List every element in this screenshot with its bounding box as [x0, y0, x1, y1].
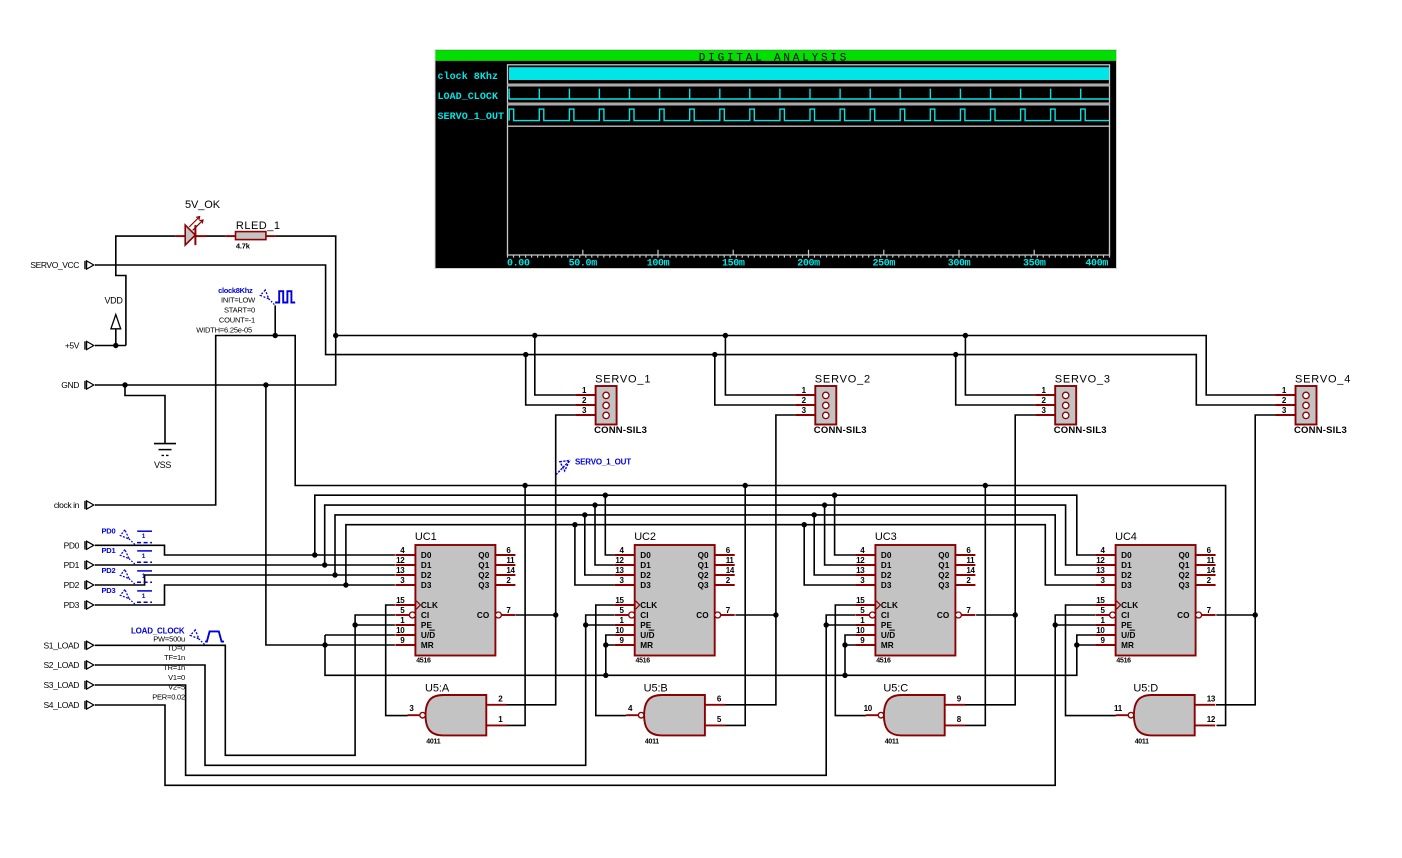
terminal S1_LOAD — [44, 640, 96, 650]
svg-text:TR=1n: TR=1n — [163, 663, 185, 672]
svg-text:PD0: PD0 — [64, 540, 80, 550]
svg-text:Q0: Q0 — [478, 551, 489, 560]
svg-text:4011: 4011 — [645, 739, 659, 746]
svg-text:CONN-SIL3: CONN-SIL3 — [1054, 425, 1107, 436]
junction: PD0 bus to UC2 D0 — [603, 493, 608, 498]
wire: PD0 net — [95, 545, 395, 555]
svg-text:4011: 4011 — [426, 739, 440, 746]
connector SERVO_1 CONN-SIL3 — [576, 373, 652, 436]
svg-text:D2: D2 — [881, 571, 892, 580]
svg-text:10: 10 — [1096, 626, 1105, 635]
svg-text:WIDTH=6.25e-05: WIDTH=6.25e-05 — [196, 325, 252, 334]
counter UC1 4516 — [395, 531, 515, 664]
nand gate U5:A 4011 — [408, 683, 507, 746]
wire: SERVO_4 pin3 / CO / U5:D in — [1216, 415, 1276, 705]
svg-text:13: 13 — [615, 566, 624, 575]
junction: GND vertical branch — [263, 382, 268, 387]
svg-text:V2=5: V2=5 — [168, 683, 185, 692]
svg-text:PE: PE — [1121, 621, 1133, 630]
junction: PD2 bus to UC3 D2 — [812, 512, 817, 517]
svg-text:D0: D0 — [881, 551, 892, 560]
svg-text:S3_LOAD: S3_LOAD — [44, 680, 80, 690]
wire: S3_LOAD net — [95, 615, 855, 775]
svg-text:14: 14 — [726, 566, 735, 575]
svg-text:clock in: clock in — [54, 500, 80, 510]
svg-text:150m: 150m — [722, 258, 745, 269]
junction: GND MR/UD UC2 — [603, 642, 608, 647]
svg-text:10: 10 — [864, 704, 873, 713]
terminal clock in — [54, 500, 96, 510]
svg-text:U/D: U/D — [421, 631, 435, 640]
svg-text:PE: PE — [640, 621, 652, 630]
svg-text:11: 11 — [726, 556, 735, 565]
junction: clock bus to U5:A — [522, 483, 527, 488]
svg-text:12: 12 — [856, 556, 865, 565]
svg-text:D3: D3 — [421, 581, 432, 590]
terminal PD0 — [64, 540, 96, 550]
switch PD0 — [102, 527, 153, 546]
svg-text:SERVO_1_OUT: SERVO_1_OUT — [575, 458, 631, 467]
svg-text:UC2: UC2 — [634, 531, 656, 543]
svg-text:4.7k: 4.7k — [236, 241, 251, 250]
LED 5V_OK — [175, 199, 221, 245]
svg-text:INIT=LOW: INIT=LOW — [221, 296, 256, 305]
svg-text:14: 14 — [1207, 566, 1216, 575]
svg-text:CLK: CLK — [640, 601, 657, 610]
svg-text:LOAD_CLOCK: LOAD_CLOCK — [438, 92, 499, 103]
svg-text:4516: 4516 — [636, 657, 651, 664]
svg-text:300m: 300m — [948, 258, 971, 269]
svg-text:CONN-SIL3: CONN-SIL3 — [594, 425, 647, 436]
junction: VCC bus to SERVO_3 pin2 — [953, 352, 958, 357]
svg-text:Q1: Q1 — [478, 561, 489, 570]
svg-text:0.00: 0.00 — [507, 258, 530, 269]
VSS ground symbol — [154, 444, 176, 470]
svg-text:13: 13 — [1207, 695, 1216, 704]
svg-text:SERVO_1: SERVO_1 — [595, 373, 651, 385]
junction: S1 net CI/PE UC1 — [352, 622, 357, 627]
counter UC2 4516 — [615, 531, 735, 664]
svg-text:13: 13 — [396, 566, 405, 575]
junction: S2 net CI/PE UC2 — [583, 622, 588, 627]
svg-text:CI: CI — [640, 611, 648, 620]
svg-text:12: 12 — [1207, 715, 1216, 724]
junction: UC2 CO / SERVO_2 net — [773, 612, 778, 617]
svg-text:GND: GND — [61, 380, 79, 390]
svg-text:CLK: CLK — [1121, 601, 1138, 610]
svg-text:RLED_1: RLED_1 — [236, 220, 281, 232]
junction: GND bottom bus UC2 tap — [603, 673, 608, 678]
svg-text:PD3: PD3 — [102, 586, 116, 595]
svg-text:D1: D1 — [881, 561, 892, 570]
svg-text:MR: MR — [881, 641, 894, 650]
junction: PD1 bus to UC3 D1 — [822, 502, 827, 507]
junction: GND bus to SERVO_1 pin1 — [532, 333, 537, 338]
wire: SERVO_1 pin3 / CO / U5:A in — [507, 415, 576, 705]
svg-text:CI: CI — [881, 611, 889, 620]
svg-text:1: 1 — [142, 573, 146, 580]
svg-text:D0: D0 — [640, 551, 651, 560]
svg-text:MR: MR — [1121, 641, 1134, 650]
svg-text:4516: 4516 — [1116, 657, 1131, 664]
svg-text:350m: 350m — [1023, 258, 1046, 269]
svg-text:S2_LOAD: S2_LOAD — [44, 660, 80, 670]
svg-text:15: 15 — [856, 596, 865, 605]
svg-text:UC3: UC3 — [875, 531, 897, 543]
junction: UC3 CO / SERVO_3 net — [1013, 612, 1018, 617]
terminal S2_LOAD — [44, 660, 96, 670]
svg-text:Q1: Q1 — [1178, 561, 1189, 570]
wire: UC3 CLK / U5:C out — [835, 605, 866, 716]
svg-text:clock 8Khz: clock 8Khz — [438, 71, 499, 83]
svg-text:PD0: PD0 — [102, 527, 116, 536]
svg-text:D0: D0 — [1121, 551, 1132, 560]
junction: PD1 at UC1 D1 — [322, 562, 327, 567]
svg-text:10: 10 — [615, 626, 624, 635]
svg-text:D1: D1 — [640, 561, 651, 570]
wire: S4_LOAD net — [95, 615, 1095, 785]
switch PD2 — [102, 566, 153, 585]
junction: PD0 bus to UC3 D0 — [832, 493, 837, 498]
svg-text:U/D: U/D — [640, 631, 654, 640]
terminal SERVO_VCC — [30, 260, 95, 270]
wire: PD3 net — [95, 585, 395, 605]
svg-text:D3: D3 — [881, 581, 892, 590]
junction: GND bus to SERVO_2 pin1 — [723, 333, 728, 338]
svg-text:CI: CI — [1121, 611, 1129, 620]
wire: SERVO_VCC net — [95, 265, 1276, 405]
svg-text:11: 11 — [1114, 704, 1123, 713]
junction: GND / VSS branch — [122, 382, 127, 387]
wire: GND to MR bus — [266, 385, 395, 645]
SERVO_1_OUT trace — [509, 109, 1109, 121]
junction: VCC bus to SERVO_1 pin2 — [523, 352, 528, 357]
svg-text:PE: PE — [421, 621, 433, 630]
generator clock8Khz — [196, 286, 295, 335]
svg-text:PER=0.02: PER=0.02 — [152, 693, 185, 702]
svg-text:D0: D0 — [421, 551, 432, 560]
svg-text:13: 13 — [1096, 566, 1105, 575]
wire: PD2 net — [95, 575, 395, 585]
resistor RLED_1 4.7k — [225, 220, 280, 250]
svg-text:SERVO_1_OUT: SERVO_1_OUT — [438, 112, 505, 123]
svg-text:PD1: PD1 — [64, 560, 80, 570]
svg-text:CI: CI — [421, 611, 429, 620]
svg-text:S4_LOAD: S4_LOAD — [44, 700, 80, 710]
svg-text:Q0: Q0 — [1178, 551, 1189, 560]
probe SERVO_1_OUT — [556, 458, 631, 475]
svg-text:PD3: PD3 — [64, 600, 80, 610]
junction: PD2 bus to UC2 D2 — [582, 512, 587, 517]
connector SERVO_3 CONN-SIL3 — [1035, 373, 1111, 436]
svg-text:4011: 4011 — [885, 739, 899, 746]
terminal PD2 — [64, 580, 96, 590]
junction: S4 net CI/PE UC4 — [1053, 622, 1058, 627]
svg-text:CONN-SIL3: CONN-SIL3 — [814, 425, 867, 436]
svg-text:DIGITAL ANALYSIS: DIGITAL ANALYSIS — [699, 52, 849, 64]
svg-text:D3: D3 — [1121, 581, 1132, 590]
svg-text:CO: CO — [696, 611, 709, 620]
svg-text:U5:C: U5:C — [883, 683, 908, 695]
switch PD3 — [102, 586, 153, 605]
junction: GND bottom bus UC3 tap — [842, 673, 847, 678]
junction: clock bus to U5:C — [983, 483, 988, 488]
terminal +5V — [65, 341, 96, 351]
terminal GND — [61, 380, 95, 390]
wire: clock net — [95, 336, 1226, 726]
svg-text:4011: 4011 — [1135, 739, 1149, 746]
wire: UC4 CLK / U5:D out — [1066, 605, 1116, 716]
svg-text:Q2: Q2 — [478, 571, 489, 580]
svg-text:4516: 4516 — [876, 657, 891, 664]
svg-text:50.0m: 50.0m — [569, 258, 598, 269]
svg-text:PD2: PD2 — [64, 580, 80, 590]
svg-text:10: 10 — [856, 626, 865, 635]
junction: GND MR/UD UC4 — [1074, 642, 1079, 647]
svg-text:U/D: U/D — [881, 631, 895, 640]
junction: GND bus / RLED_1 — [333, 333, 338, 338]
wire: UC1 CLK / U5:A out — [386, 605, 408, 716]
svg-text:MR: MR — [640, 641, 653, 650]
svg-text:TD=0: TD=0 — [167, 643, 185, 652]
digital analysis panel — [435, 50, 1117, 270]
svg-text:PE: PE — [881, 621, 893, 630]
svg-text:Q2: Q2 — [938, 571, 949, 580]
svg-text:PD1: PD1 — [102, 546, 116, 555]
svg-text:VSS: VSS — [154, 460, 171, 470]
junction: PD2 at UC1 D2 — [332, 572, 337, 577]
svg-text:V1=0: V1=0 — [168, 673, 185, 682]
generator LOAD_CLOCK — [131, 626, 224, 701]
svg-text:CO: CO — [937, 611, 950, 620]
junction: UC4 CO / SERVO_4 net — [1253, 612, 1258, 617]
wire: GND net top bus — [95, 336, 1276, 396]
svg-text:D2: D2 — [1121, 571, 1132, 580]
svg-text:Q3: Q3 — [478, 581, 489, 590]
svg-text:clock8Khz: clock8Khz — [218, 286, 253, 295]
svg-text:D1: D1 — [421, 561, 432, 570]
svg-text:U5:A: U5:A — [425, 683, 450, 695]
svg-text:UC1: UC1 — [415, 531, 437, 543]
wire: SERVO_3 pin3 / CO / U5:C in — [965, 415, 1035, 705]
svg-text:Q3: Q3 — [938, 581, 949, 590]
svg-text:5V_OK: 5V_OK — [185, 199, 221, 211]
svg-text:Q0: Q0 — [698, 551, 709, 560]
svg-text:4516: 4516 — [416, 657, 431, 664]
junction: GND MR/UD UC1 — [322, 642, 327, 647]
wire: S1_LOAD net — [95, 615, 395, 755]
junction: PD0 at UC1 D0 — [312, 552, 317, 557]
wire: +5V — [95, 345, 126, 347]
junction: PD3 bus to UC2 D3 — [572, 522, 577, 527]
time axis — [508, 250, 1110, 258]
svg-text:TF=1n: TF=1n — [164, 653, 185, 662]
svg-text:CO: CO — [477, 611, 490, 620]
junction: +5V / VDD — [113, 343, 118, 348]
junction: S3 net CI/PE UC3 — [824, 622, 829, 627]
svg-text:D2: D2 — [421, 571, 432, 580]
counter UC4 4516 — [1096, 531, 1216, 664]
terminal PD3 — [64, 600, 96, 610]
junction: clock bus to U5:B — [743, 483, 748, 488]
terminal S4_LOAD — [44, 700, 96, 710]
junction: PD3 bus to UC3 D3 — [802, 522, 807, 527]
junction: PD3 at UC1 D3 — [343, 582, 348, 587]
svg-text:Q0: Q0 — [938, 551, 949, 560]
svg-text:14: 14 — [966, 566, 975, 575]
svg-text:11: 11 — [966, 556, 975, 565]
svg-text:Q2: Q2 — [1178, 571, 1189, 580]
svg-text:SERVO_3: SERVO_3 — [1055, 373, 1111, 385]
svg-text:SERVO_4: SERVO_4 — [1295, 373, 1351, 385]
svg-text:1: 1 — [142, 553, 146, 560]
svg-text:SERVO_2: SERVO_2 — [815, 373, 871, 385]
svg-text:U5:D: U5:D — [1133, 683, 1158, 695]
svg-text:MR: MR — [421, 641, 434, 650]
svg-text:D3: D3 — [640, 581, 651, 590]
counter UC3 4516 — [855, 531, 975, 664]
svg-text:1: 1 — [142, 593, 146, 600]
svg-text:CLK: CLK — [881, 601, 898, 610]
svg-text:250m: 250m — [872, 258, 895, 269]
svg-text:Q2: Q2 — [698, 571, 709, 580]
nand gate U5:B 4011 — [626, 683, 725, 746]
svg-text:Q1: Q1 — [698, 561, 709, 570]
connector SERVO_4 CONN-SIL3 — [1276, 373, 1352, 436]
svg-text:Q3: Q3 — [1178, 581, 1189, 590]
LOAD_CLOCK trace — [509, 89, 1109, 99]
wire: PD1 net — [95, 564, 395, 566]
svg-text:U/D: U/D — [1121, 631, 1135, 640]
terminal PD1 — [64, 560, 96, 570]
wire: VSS branch — [125, 385, 165, 443]
svg-text:10: 10 — [396, 626, 405, 635]
svg-text:CLK: CLK — [421, 601, 438, 610]
svg-text:Q3: Q3 — [698, 581, 709, 590]
wire: UC2 CLK / U5:B out — [596, 605, 626, 716]
svg-text:PW=500u: PW=500u — [153, 634, 185, 643]
svg-text:VDD: VDD — [104, 296, 123, 306]
svg-text:CO: CO — [1177, 611, 1190, 620]
svg-text:PD2: PD2 — [102, 566, 116, 575]
svg-text:12: 12 — [396, 556, 405, 565]
svg-text:SERVO_VCC: SERVO_VCC — [30, 260, 79, 270]
switch PD1 — [102, 546, 153, 565]
svg-text:12: 12 — [1096, 556, 1105, 565]
junction: PD1 bus to UC2 D1 — [592, 502, 597, 507]
junction: UC1 CO / SERVO_1 net — [553, 612, 558, 617]
svg-text:1: 1 — [142, 533, 146, 540]
wire: LED branch — [116, 236, 175, 345]
svg-text:+5V: +5V — [65, 341, 80, 351]
nand gate U5:C 4011 — [864, 683, 966, 746]
svg-text:15: 15 — [396, 596, 405, 605]
svg-text:S1_LOAD: S1_LOAD — [44, 640, 80, 650]
svg-text:UC4: UC4 — [1115, 531, 1137, 543]
svg-text:15: 15 — [1096, 596, 1105, 605]
svg-text:Q1: Q1 — [938, 561, 949, 570]
junction: VCC bus to SERVO_2 pin2 — [712, 352, 717, 357]
nand gate U5:D 4011 — [1114, 683, 1216, 746]
clock 8Khz trace — [509, 67, 1109, 80]
wire: SERVO_2 pin3 / CO / U5:B in — [725, 415, 795, 705]
svg-text:14: 14 — [506, 566, 515, 575]
svg-text:12: 12 — [615, 556, 624, 565]
svg-text:COUNT=-1: COUNT=-1 — [219, 316, 255, 325]
junction: GND MR/UD UC3 — [842, 642, 847, 647]
svg-text:13: 13 — [856, 566, 865, 575]
wire: S2_LOAD net — [95, 615, 614, 765]
VDD power symbol — [104, 296, 123, 329]
svg-text:100m: 100m — [647, 258, 670, 269]
svg-text:U5:B: U5:B — [644, 683, 668, 695]
svg-text:D1: D1 — [1121, 561, 1132, 570]
svg-text:400m: 400m — [1085, 258, 1108, 269]
connector SERVO_2 CONN-SIL3 — [795, 373, 871, 436]
junction: clock generator tap — [273, 333, 278, 338]
junction: GND bus to SERVO_3 pin1 — [963, 333, 968, 338]
svg-text:200m: 200m — [797, 258, 820, 269]
svg-text:D2: D2 — [640, 571, 651, 580]
terminal S3_LOAD — [44, 680, 96, 690]
svg-text:11: 11 — [1207, 556, 1216, 565]
svg-text:15: 15 — [615, 596, 624, 605]
svg-text:START=0: START=0 — [224, 306, 255, 315]
svg-text:11: 11 — [506, 556, 515, 565]
svg-text:CONN-SIL3: CONN-SIL3 — [1294, 425, 1347, 436]
